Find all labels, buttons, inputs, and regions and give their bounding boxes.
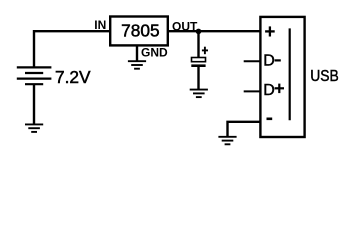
wire capacitor to ground [197, 66, 199, 90]
capacitor C1 plus label [202, 47, 208, 55]
wire USB minus pin to ground [228, 122, 261, 137]
battery B1 [17, 67, 52, 84]
ground below battery [25, 124, 43, 131]
svg-text:IN: IN [94, 18, 106, 32]
wire junction to capacitor [197, 31, 199, 57]
capacitor C1 [192, 58, 206, 62]
wire D+ stub [244, 90, 260, 92]
regulator U1 7805 [110, 17, 168, 46]
node junction dot [196, 29, 202, 35]
svg-text:7.2V: 7.2V [55, 67, 91, 87]
ground below capacitor [190, 90, 208, 98]
USB connector inner contact line [289, 28, 291, 120]
pin label + [265, 26, 275, 36]
svg-text:USB: USB [310, 68, 339, 85]
svg-text:GND: GND [141, 46, 168, 60]
svg-text:D: D [263, 82, 275, 99]
pin label - [267, 118, 273, 121]
USB connector J1 [260, 17, 304, 137]
wire GND pin of U1 [136, 45, 138, 61]
wire battery to IN [34, 31, 111, 68]
ground below U1 [128, 61, 146, 68]
svg-text:D: D [263, 53, 275, 70]
ground at USB minus [218, 137, 236, 145]
wire battery to ground [33, 84, 35, 124]
svg-text:7805: 7805 [121, 20, 159, 40]
wire OUT to USB [167, 30, 260, 32]
wire D- stub [244, 60, 260, 62]
